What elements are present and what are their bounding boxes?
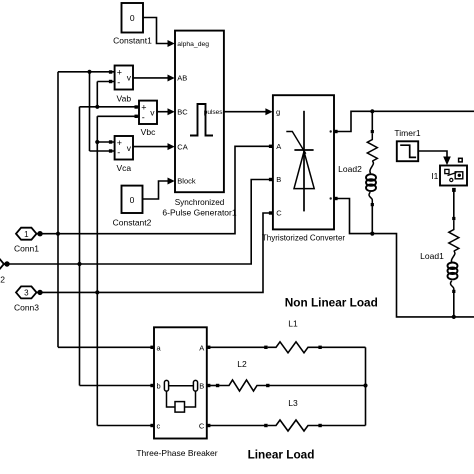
wire converter + output to top rail xyxy=(338,111,474,131)
wire Load1 bottom to rail xyxy=(453,291,455,317)
wire Timer1 to I1 control xyxy=(418,151,447,157)
svg-text:0: 0 xyxy=(130,195,135,205)
wire Vbc+ feed xyxy=(80,106,140,108)
svg-text:b: b xyxy=(157,382,161,391)
svg-text:-: - xyxy=(142,113,145,123)
wire L1 to right bus xyxy=(319,346,366,348)
wire L3 to right bus xyxy=(319,425,366,427)
resistor L1 xyxy=(268,342,319,353)
svg-text:Block: Block xyxy=(177,177,196,186)
wire breaker B to L2 xyxy=(207,385,220,387)
svg-text:B: B xyxy=(276,175,281,184)
svg-text:2: 2 xyxy=(0,274,5,284)
wire Vab- feed xyxy=(97,81,114,83)
wire Conn2 to converter B xyxy=(9,180,273,265)
wire phase C vertical x97.3 xyxy=(96,116,98,425)
svg-text:Timer1: Timer1 xyxy=(394,128,420,138)
wire Vab- vertical to Vbc+ net xyxy=(96,82,98,107)
svg-text:Linear Load: Linear Load xyxy=(248,448,315,462)
wire breaker c feed xyxy=(97,425,154,427)
svg-text:0: 0 xyxy=(130,13,135,23)
svg-text:L3: L3 xyxy=(288,398,298,408)
svg-text:Vab: Vab xyxy=(117,94,132,104)
svg-text:v: v xyxy=(150,108,155,118)
svg-text:+: + xyxy=(117,138,122,148)
wire phase A short vertical x89.5 xyxy=(89,72,91,151)
svg-text:I1: I1 xyxy=(431,171,438,181)
wire breaker a feed xyxy=(58,346,154,348)
svg-text:Conn3: Conn3 xyxy=(14,302,39,312)
timer block Timer1 xyxy=(394,128,420,161)
svg-text:Load2: Load2 xyxy=(338,164,362,174)
connection port Conn2 (clipped at left edge) xyxy=(0,258,7,284)
voltage measurement Vab xyxy=(115,66,133,104)
svg-text:-: - xyxy=(117,148,120,158)
wire Vca+ feed xyxy=(97,141,114,143)
thyristor symbol xyxy=(303,111,305,212)
voltage measurement Vbc xyxy=(139,101,157,137)
svg-text:+: + xyxy=(117,68,122,78)
svg-text:1: 1 xyxy=(24,230,29,239)
node Conn3 port dot xyxy=(37,290,42,295)
series RL load Load1 xyxy=(448,220,459,290)
wire linear load right bus xyxy=(365,347,367,425)
svg-text:Vca: Vca xyxy=(116,163,131,173)
wire Vca output to CA xyxy=(133,146,169,148)
svg-text:CA: CA xyxy=(177,142,187,151)
thyristor converter U2 xyxy=(262,95,345,242)
svg-text:BC: BC xyxy=(177,107,188,116)
svg-text:A: A xyxy=(276,142,281,151)
wire Vab output to AB xyxy=(133,77,169,79)
svg-text:Vbc: Vbc xyxy=(141,127,156,137)
svg-text:3: 3 xyxy=(24,289,29,298)
wire converter - output to bottom rail xyxy=(338,199,474,317)
svg-text:Non Linear Load: Non Linear Load xyxy=(285,296,378,310)
svg-text:Three-Phase Breaker: Three-Phase Breaker xyxy=(136,448,217,458)
wire Constant1 to alpha_deg xyxy=(143,18,169,44)
wire Vbc- feed xyxy=(97,115,139,117)
wire phase A left vertical x58 xyxy=(57,72,59,348)
wire phase A top: Vab+ feed xyxy=(58,71,115,73)
wire Vbc output to BC xyxy=(157,111,169,113)
svg-text:-: - xyxy=(117,77,120,87)
constant C1 block xyxy=(113,3,152,46)
wire Load2 top drop xyxy=(371,111,373,131)
series RL load Load2 xyxy=(366,133,377,203)
svg-text:L1: L1 xyxy=(288,319,298,329)
wire phase B vertical x79.5 xyxy=(79,107,81,386)
svg-text:Load1: Load1 xyxy=(420,251,444,261)
node Conn1 port dot xyxy=(37,231,42,236)
svg-text:C: C xyxy=(199,422,205,431)
three-phase breaker B1 xyxy=(136,327,217,458)
resistor L3 xyxy=(268,420,319,431)
breaker icon xyxy=(169,385,194,387)
svg-text:6-Pulse Generator1: 6-Pulse Generator1 xyxy=(162,208,236,218)
svg-text:Conn1: Conn1 xyxy=(14,244,39,254)
svg-text:Constant2: Constant2 xyxy=(113,218,152,228)
connection port Conn1 xyxy=(14,228,40,254)
wire Conn3 to converter C xyxy=(40,213,273,292)
wire L2 to right bus xyxy=(268,385,366,387)
port squares xyxy=(109,70,456,427)
svg-text:Thyristorized Converter: Thyristorized Converter xyxy=(262,234,345,243)
svg-text:Constant1: Constant1 xyxy=(113,36,152,46)
svg-text:+: + xyxy=(141,103,146,113)
resistor L2 xyxy=(219,380,267,391)
wire Constant2 to Block xyxy=(143,181,169,199)
svg-text:A: A xyxy=(199,343,204,352)
svg-text:v: v xyxy=(127,73,132,83)
svg-text:g: g xyxy=(276,107,280,116)
svg-text:AB: AB xyxy=(177,74,187,83)
pulse generator U1 Synchronized 6-Pulse Generator1 xyxy=(162,31,236,218)
wire breaker C to L3 xyxy=(207,425,268,427)
wire Conn1 to converter A xyxy=(40,146,273,233)
wire Load2 bottom drop xyxy=(371,205,373,234)
svg-text:c: c xyxy=(157,422,161,431)
svg-text:L2: L2 xyxy=(237,359,247,369)
wire breaker b feed xyxy=(80,385,155,387)
connection port Conn3 xyxy=(14,286,40,312)
wire I1 output to Load1 xyxy=(453,192,455,219)
arrowheads xyxy=(168,40,451,185)
svg-text:v: v xyxy=(127,143,132,153)
svg-text:C: C xyxy=(276,209,282,218)
constant C2 block xyxy=(113,186,152,228)
node Conn2 port dot xyxy=(4,261,9,266)
svg-text:alpha_deg: alpha_deg xyxy=(177,41,209,48)
wire breaker A to L1 xyxy=(207,346,268,348)
voltage measurement Vca xyxy=(115,136,133,173)
svg-text:Synchronized: Synchronized xyxy=(175,198,225,207)
wire pulses to g xyxy=(224,111,266,113)
svg-text:pulses: pulses xyxy=(204,109,224,116)
wire Vca- feed xyxy=(90,150,115,152)
breaker I1 xyxy=(431,158,467,185)
svg-text:B: B xyxy=(199,382,204,391)
